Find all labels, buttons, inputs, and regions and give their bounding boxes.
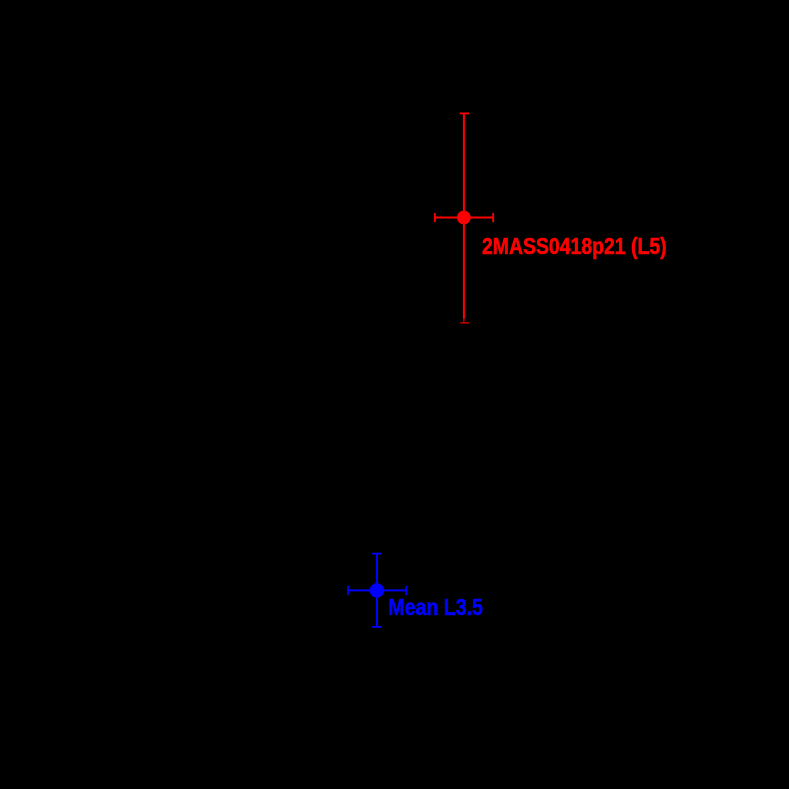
red y-error top cap <box>460 112 470 114</box>
red y-error bottom cap <box>460 322 469 324</box>
red x-error left cap <box>434 213 436 222</box>
red data point marker 2MASS0418p21 <box>457 211 471 225</box>
red x-error right cap <box>492 213 494 222</box>
blue y-error top cap <box>372 553 382 555</box>
blue y-error bar (Mean L3.5) <box>376 554 378 627</box>
red y-error bar (2MASS0418p21) <box>463 113 465 318</box>
blue x-error right cap <box>405 586 407 595</box>
blue y-error bottom cap <box>372 626 382 628</box>
blue x-error bar <box>348 589 406 591</box>
svg-text:Mean L3.5: Mean L3.5 <box>388 594 483 620</box>
red y-error bar lower thin extension <box>463 319 465 323</box>
blue x-error left cap <box>347 586 349 595</box>
red x-error bar <box>435 217 493 219</box>
svg-text:2MASS0418p21 (L5): 2MASS0418p21 (L5) <box>482 233 667 259</box>
blue data point marker Mean L3.5 <box>370 583 384 597</box>
